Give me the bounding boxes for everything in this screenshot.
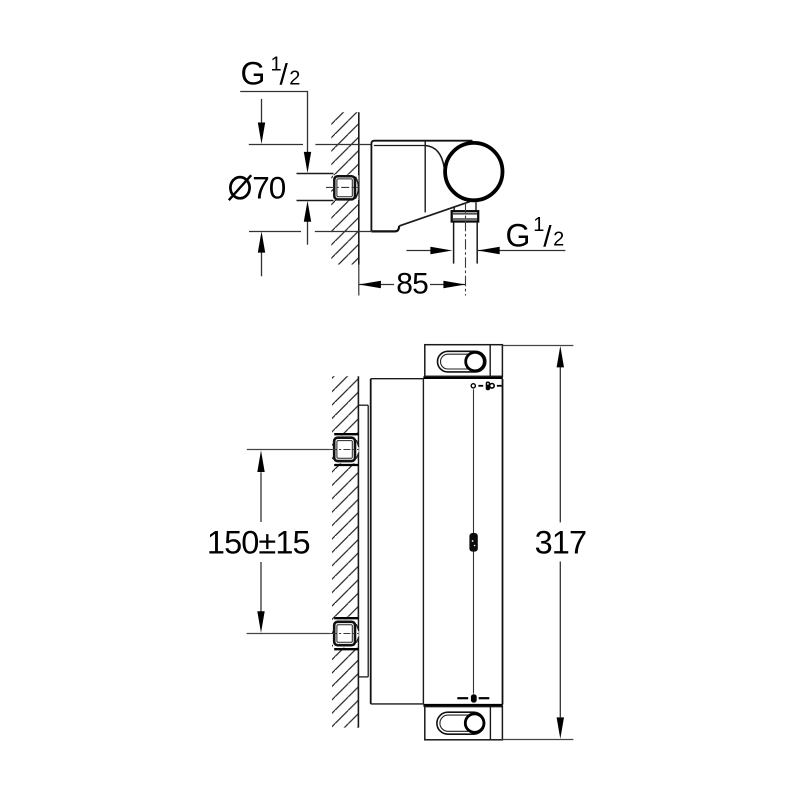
inlet pipe stub (top view) [297, 174, 334, 201]
holder ring circle [445, 143, 502, 200]
outlet centerline [465, 203, 467, 296]
temp stop symbols top [471, 384, 475, 388]
dim 150±15 [260, 472, 262, 522]
dim 85 line [359, 284, 394, 286]
dim Ø70 ext line bottom [249, 231, 371, 233]
svg-text:2: 2 [553, 229, 564, 251]
svg-text:/: / [280, 59, 289, 92]
svg-text:2: 2 [289, 68, 300, 90]
dim G1/2 top leader [240, 92, 307, 153]
holder front edge [424, 141, 426, 213]
plate bottom edge [371, 226, 399, 232]
svg-text:317: 317 [535, 525, 587, 561]
wall line (top view) [358, 112, 360, 264]
outlet pipe [453, 222, 455, 264]
mounting strip [358, 405, 368, 677]
svg-text:85: 85 [396, 268, 428, 301]
holder rim line [374, 145, 425, 147]
inlet centerline (top view) [326, 186, 359, 188]
svg-text:70: 70 [252, 169, 286, 205]
holder fillet curve [425, 146, 444, 168]
dim Ø70 lower arrow [261, 252, 263, 276]
centerline of body (front view) [473, 389, 475, 693]
wall hatching (front view) [332, 376, 358, 727]
top bracket [425, 345, 503, 377]
svg-text:150±15: 150±15 [207, 525, 310, 561]
front bar [422, 379, 424, 704]
ext/centerline 150 bottom [247, 633, 330, 635]
inlet nut cap arc (top view) [333, 175, 358, 200]
outlet union nut [452, 211, 479, 221]
svg-text:/: / [543, 220, 552, 253]
svg-text:G: G [506, 217, 531, 253]
dim G1/2 top arrow down [304, 152, 311, 173]
label Ø70 [230, 177, 249, 198]
bottom stop symbol [457, 697, 468, 699]
dim G1/2 bottom-right [406, 250, 431, 252]
wall plate / escutcheon (side view) [371, 141, 472, 232]
wall hatching (top view) [331, 112, 359, 264]
dim Ø70 ext line top [249, 144, 371, 146]
union nut bottom (front view) [334, 617, 358, 619]
dim Ø70 upper arrow [261, 99, 263, 123]
union nut (top view inlet) [334, 176, 355, 199]
outlet neck [453, 207, 455, 211]
wall line (front view) [357, 376, 359, 727]
back body [370, 379, 372, 704]
dim 85 wall ext [358, 265, 360, 296]
middle knob mark [469, 533, 477, 552]
svg-text:G: G [241, 56, 266, 92]
union nut top (front view) [334, 433, 358, 435]
dim 317 [503, 345, 574, 347]
ext/centerline 150 top [247, 449, 330, 451]
dim G1/2 bottom arrow up [307, 222, 309, 245]
bottom bracket [425, 707, 503, 740]
holder bottom slant [399, 202, 470, 226]
